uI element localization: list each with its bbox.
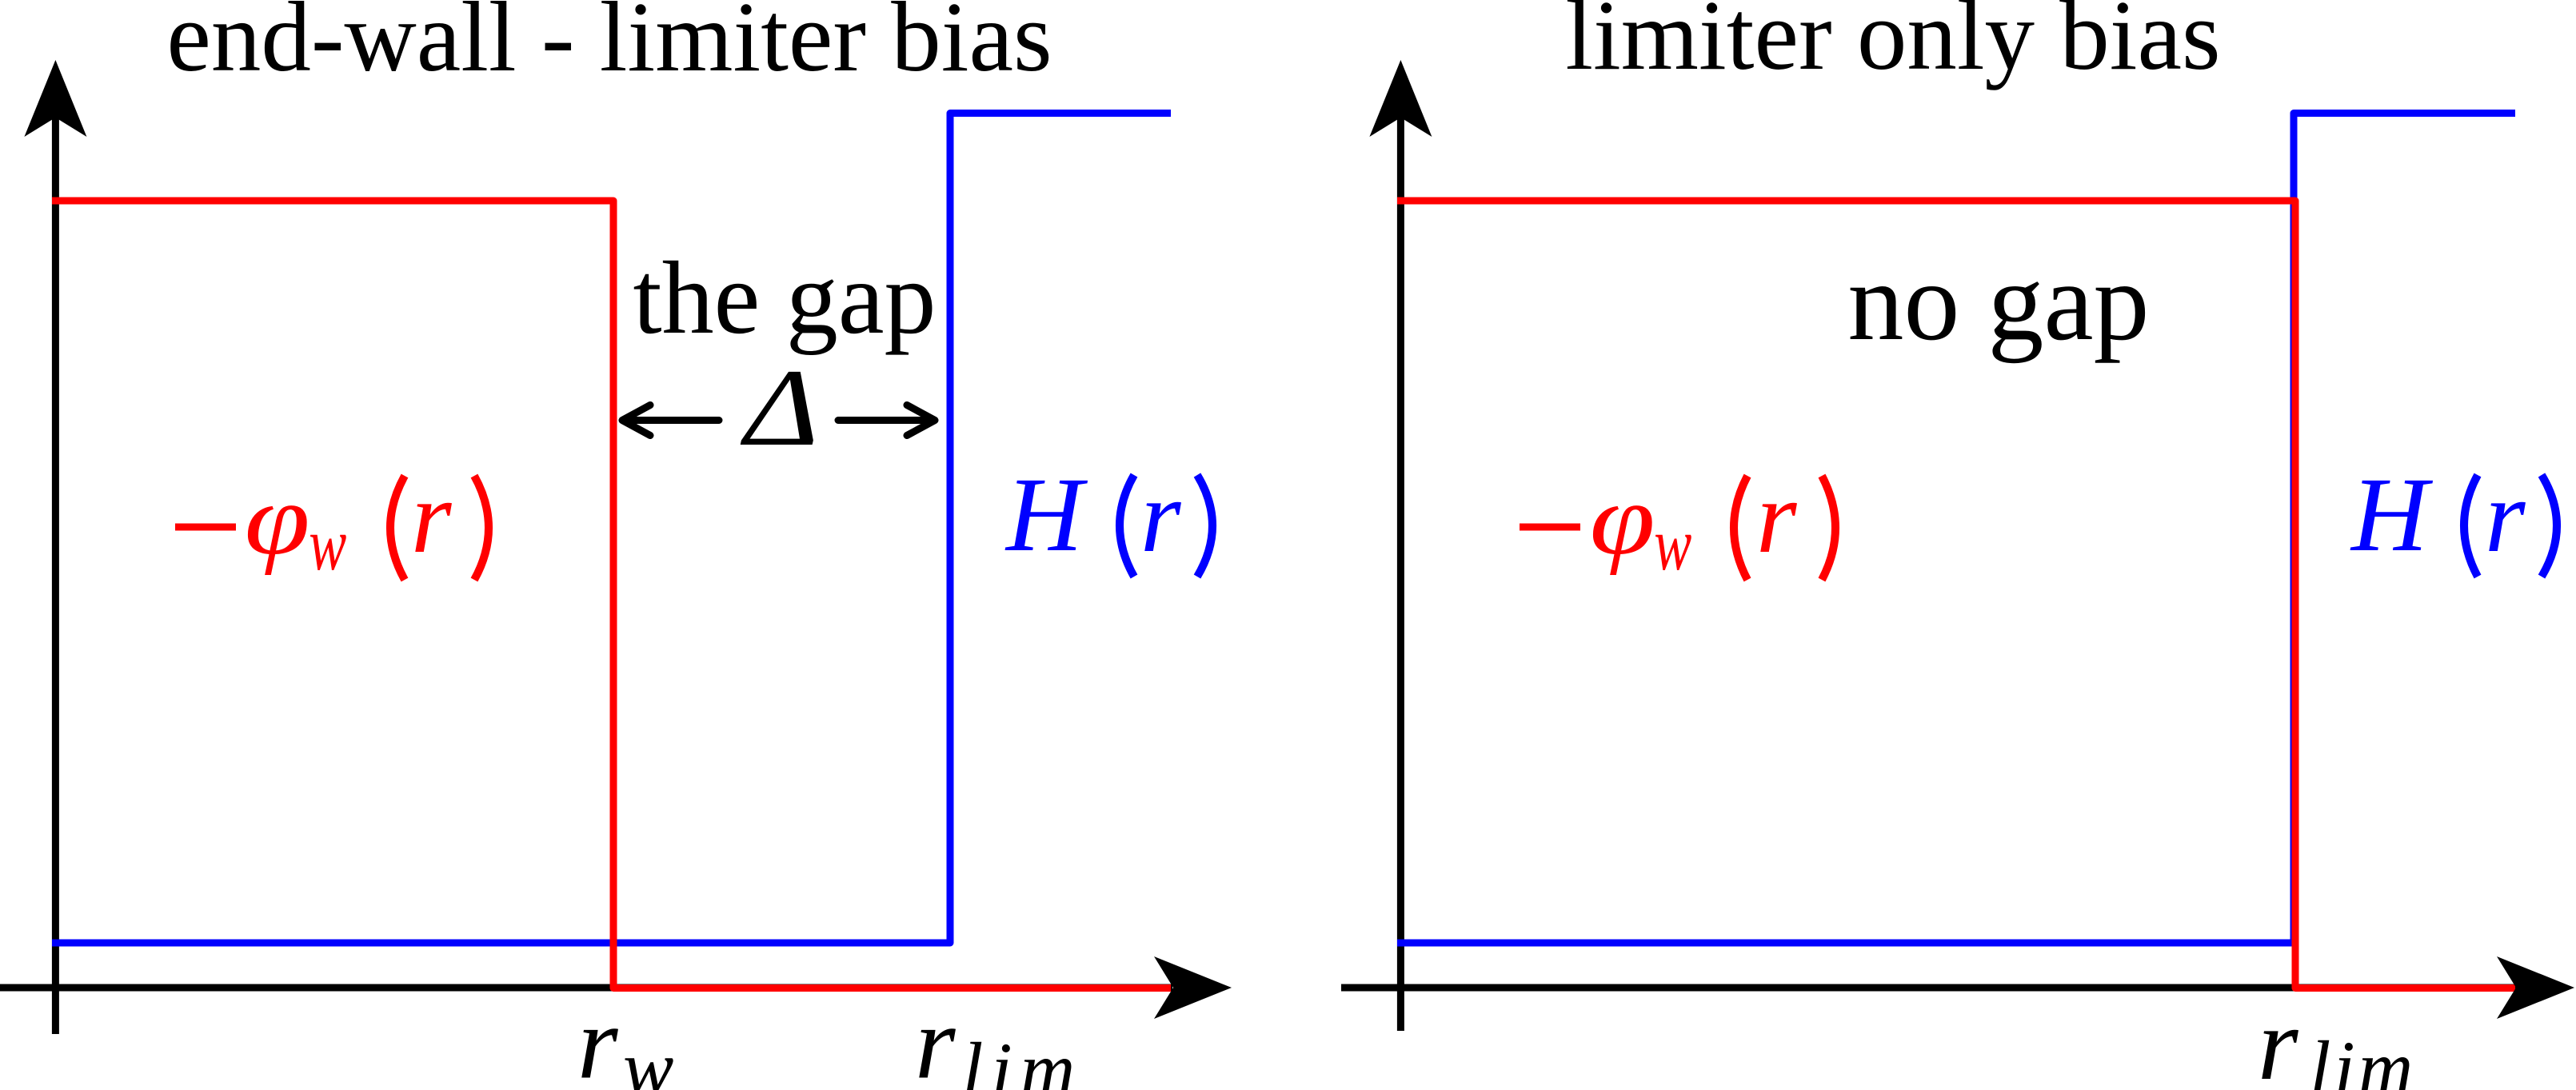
left axis label r_w	[577, 986, 673, 1090]
svg-text:φ: φ	[1590, 463, 1655, 576]
svg-text:r: r	[915, 986, 956, 1090]
right y-axis arrowhead	[1369, 60, 1432, 137]
right blue label H(r)	[2350, 455, 2557, 577]
svg-text:H: H	[1004, 455, 1088, 573]
gap right arrow	[838, 405, 935, 436]
left x-axis arrowhead	[1154, 956, 1232, 1019]
svg-text:end-wall - limiter bias: end-wall - limiter bias	[166, 0, 1052, 93]
right y-axis	[1397, 72, 1404, 1031]
svg-text:w: w	[1654, 502, 1691, 585]
svg-text:r: r	[1756, 460, 1797, 575]
left blue label H(r)	[1004, 455, 1212, 577]
svg-text:limiter only bias: limiter only bias	[1565, 0, 2220, 91]
svg-text:Δ: Δ	[741, 347, 819, 469]
right x-axis	[1341, 984, 2516, 992]
left red curve -phi_w(r)	[52, 201, 1171, 988]
svg-text:w: w	[623, 1025, 673, 1090]
right axis label r_lim	[2258, 987, 2416, 1090]
left y-axis	[52, 72, 59, 1034]
svg-text:φ: φ	[245, 463, 310, 576]
svg-text:lim: lim	[962, 1027, 1083, 1090]
svg-text:no gap: no gap	[1847, 240, 2149, 364]
right blue curve H(r)	[1397, 114, 2515, 944]
left blue curve H(r)	[52, 114, 1171, 944]
svg-text:w: w	[309, 502, 346, 585]
left axis label r_lim	[915, 986, 1083, 1090]
svg-text:r: r	[2258, 987, 2298, 1090]
gap left arrow	[622, 405, 719, 436]
svg-text:the gap: the gap	[633, 241, 936, 356]
right red label -phi_w(r)	[1520, 460, 1835, 585]
svg-text:r: r	[577, 986, 618, 1090]
right x-axis arrowhead	[2497, 956, 2574, 1019]
right red curve -phi_w(r)	[1397, 201, 2515, 988]
left red label -phi_w(r)	[175, 460, 489, 585]
svg-text:H: H	[2350, 455, 2434, 573]
left x-axis	[0, 984, 1172, 992]
left y-axis arrowhead	[24, 60, 86, 137]
svg-text:r: r	[2485, 459, 2526, 574]
svg-text:lim: lim	[2310, 1025, 2416, 1090]
svg-text:r: r	[1140, 459, 1181, 574]
svg-text:r: r	[411, 460, 452, 575]
